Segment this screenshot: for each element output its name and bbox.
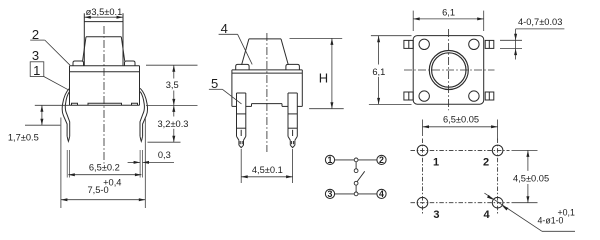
side view top bump right [286, 64, 300, 70]
svg-text:ø3,5±0.1: ø3,5±0.1 [86, 7, 123, 17]
svg-text:3,5: 3,5 [166, 80, 179, 90]
dimension 7,5 +0,4/-0 [61, 178, 145, 202]
svg-text:3: 3 [328, 189, 333, 199]
front view top bump left [73, 61, 84, 66]
schematic terminal 2 [377, 155, 386, 165]
svg-text:3: 3 [32, 48, 39, 63]
pcb pad number 1 [433, 157, 439, 169]
side view bottom profile [232, 104, 302, 107]
svg-text:2: 2 [483, 157, 489, 169]
label 1 boxed with leader [30, 62, 68, 90]
label 2 cover leader [30, 27, 70, 65]
svg-text:1,7±0.5: 1,7±0.5 [8, 133, 39, 143]
front view lead extension lines [61, 118, 145, 209]
top view body [413, 36, 484, 105]
schematic wire 3-4 [335, 193, 377, 195]
top view side tab right lower [485, 92, 494, 100]
top view button circles [429, 51, 468, 90]
svg-text:4-0,7±0.03: 4-0,7±0.03 [518, 17, 562, 27]
svg-text:4: 4 [484, 209, 491, 221]
schematic moving contact lower [354, 181, 358, 185]
svg-text:3,2±0.3: 3,2±0.3 [158, 119, 189, 129]
svg-text:1: 1 [328, 155, 333, 165]
dimension 6,5±0.05 [423, 114, 498, 140]
top view side tab left upper [404, 40, 413, 48]
pcb hole centerline column 1-3 [422, 139, 424, 215]
top view corner rivet circles [419, 39, 429, 49]
svg-text:2: 2 [379, 155, 384, 165]
svg-text:+0,4: +0,4 [103, 178, 121, 188]
dimension 3,5 [146, 65, 198, 105]
svg-text:4: 4 [379, 189, 384, 199]
svg-text:+0,1: +0,1 [558, 208, 575, 218]
schematic wire 1-2 [335, 159, 377, 161]
dimension 4-0,7±0.03 [500, 17, 564, 59]
schematic terminal 4 [377, 189, 386, 199]
pcb pad number 4 [484, 209, 491, 221]
pcb hole centerline row 1-2 [411, 149, 510, 151]
dimension 6,1 horizontal [413, 7, 484, 31]
label 5 pin leader [209, 76, 242, 104]
dimension 4,5±0.1 [241, 149, 292, 183]
svg-text:6,1: 6,1 [442, 7, 455, 17]
side view body [232, 70, 302, 107]
schematic contact stub lower [355, 185, 357, 194]
pcb hole centerline row 3-4 [411, 202, 510, 204]
svg-text:3: 3 [433, 209, 439, 221]
front view left lead [62, 88, 70, 141]
front view bottom standoffs [72, 103, 138, 105]
pcb hole centerline column 2-4 [497, 139, 499, 215]
svg-text:6,5±0.05: 6,5±0.05 [443, 114, 479, 124]
front view body [70, 66, 140, 106]
top view centerlines [404, 29, 495, 110]
schematic terminal 3 [325, 189, 334, 199]
svg-text:6,5±0.2: 6,5±0.2 [89, 163, 120, 173]
side view right pin [288, 93, 297, 148]
pcb pad number 3 [433, 209, 439, 221]
schematic contact stub upper [355, 160, 357, 169]
svg-text:1: 1 [433, 157, 439, 169]
front view top bump right [125, 61, 136, 66]
svg-text:2: 2 [32, 27, 39, 42]
schematic terminal 1 [325, 155, 334, 165]
label 4-ø1 hole leader [484, 193, 575, 231]
top view side tab left lower [404, 92, 413, 100]
label 3 [32, 48, 39, 63]
svg-text:4,5±0.1: 4,5±0.1 [252, 165, 283, 175]
dimension 0,3 [128, 150, 174, 164]
front view button flange [83, 37, 125, 61]
svg-text:6,1: 6,1 [372, 67, 385, 77]
dimension 6,5±0.2 [68, 163, 141, 177]
label 4 button leader [219, 21, 253, 64]
pcb hole 3 [417, 197, 428, 208]
dimension 6,1 vertical [369, 36, 412, 105]
pcb hole 1 [417, 145, 428, 156]
side view left pin [237, 93, 246, 148]
pcb hole 2 [492, 145, 503, 156]
pcb hole 4 [492, 197, 503, 208]
schematic node on wire 1-2 [354, 158, 358, 162]
schematic switch blade [357, 171, 364, 181]
top view side tab right upper [485, 40, 494, 48]
side view centerline [266, 33, 268, 152]
pcb pad number 2 [483, 157, 489, 169]
dimension ø3,5±0.1 [84, 7, 123, 19]
svg-text:0,3: 0,3 [158, 150, 171, 160]
dimension 4,5±0.05 [512, 150, 550, 202]
front view centerline [103, 26, 105, 164]
svg-text:1: 1 [33, 63, 40, 78]
front view right lead [140, 88, 148, 141]
schematic node on wire 3-4 [354, 192, 358, 196]
dimension H [290, 38, 344, 108]
side view button [242, 39, 289, 65]
schematic fixed contact upper [354, 169, 358, 173]
svg-text:5: 5 [211, 76, 218, 91]
front view button stem [84, 13, 123, 65]
side view top bump left [236, 64, 249, 70]
svg-text:H: H [319, 71, 328, 86]
svg-text:4: 4 [221, 21, 228, 36]
dimension 3,2±0.3 [146, 105, 198, 142]
svg-text:4,5±0.05: 4,5±0.05 [513, 173, 549, 183]
dimension 1,7±0.5 [8, 105, 70, 142]
